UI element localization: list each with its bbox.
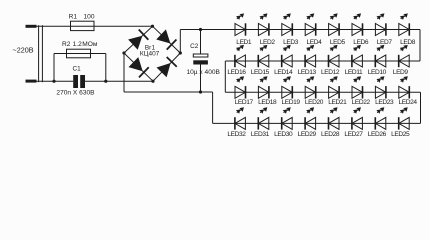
svg-text:LED17: LED17 — [235, 99, 254, 106]
svg-text:C1: C1 — [73, 65, 82, 72]
svg-text:LED29: LED29 — [298, 131, 317, 138]
svg-text:LED21: LED21 — [328, 99, 347, 106]
svg-text:LED8: LED8 — [400, 39, 416, 46]
svg-text:LED5: LED5 — [330, 39, 346, 46]
svg-text:LED4: LED4 — [306, 39, 322, 46]
svg-text:LED30: LED30 — [274, 131, 293, 138]
svg-text:LED16: LED16 — [227, 69, 246, 76]
svg-text:КЦ407: КЦ407 — [140, 51, 160, 58]
svg-text:LED20: LED20 — [305, 99, 324, 106]
svg-text:LED13: LED13 — [298, 69, 317, 76]
svg-text:R1: R1 — [69, 14, 78, 21]
svg-text:LED23: LED23 — [375, 99, 394, 106]
svg-text:100: 100 — [83, 14, 94, 21]
svg-text:LED32: LED32 — [227, 131, 246, 138]
svg-text:LED25: LED25 — [391, 131, 410, 138]
svg-text:C2: C2 — [190, 43, 199, 50]
svg-text:LED14: LED14 — [274, 69, 293, 76]
svg-text:МОм: МОм — [82, 41, 98, 48]
svg-text:LED3: LED3 — [283, 39, 299, 46]
svg-text:1.2: 1.2 — [73, 41, 82, 48]
svg-text:LED27: LED27 — [344, 131, 363, 138]
svg-text:~220В: ~220В — [13, 46, 34, 55]
svg-text:LED7: LED7 — [377, 39, 393, 46]
svg-text:LED15: LED15 — [251, 69, 270, 76]
svg-text:LED1: LED1 — [236, 39, 252, 46]
svg-text:R2: R2 — [62, 41, 71, 48]
svg-text:LED31: LED31 — [251, 131, 270, 138]
svg-text:LED11: LED11 — [345, 69, 363, 76]
svg-text:LED18: LED18 — [258, 99, 277, 106]
svg-text:LED24: LED24 — [398, 99, 417, 106]
svg-text:LED9: LED9 — [393, 69, 409, 76]
svg-text:LED6: LED6 — [353, 39, 369, 46]
svg-text:LED28: LED28 — [321, 131, 340, 138]
svg-text:LED22: LED22 — [352, 99, 371, 106]
svg-text:10µ x 400В: 10µ x 400В — [186, 69, 220, 76]
svg-text:LED26: LED26 — [368, 131, 387, 138]
svg-text:LED12: LED12 — [321, 69, 340, 76]
svg-text:270n X 630В: 270n X 630В — [56, 90, 95, 97]
svg-text:LED19: LED19 — [281, 99, 300, 106]
svg-text:LED2: LED2 — [260, 39, 276, 46]
svg-text:LED10: LED10 — [368, 69, 387, 76]
